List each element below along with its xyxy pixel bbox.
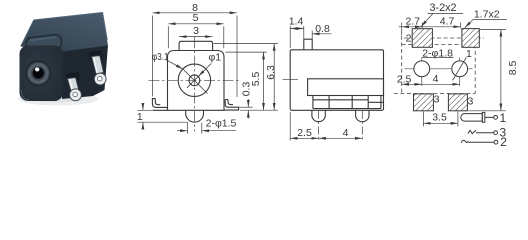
dim 2.5 line (layout) bbox=[402, 83, 422, 85]
extension raised top to 6.3 bbox=[214, 43, 278, 45]
dim 6.3 line bbox=[273, 44, 275, 111]
dim 2-phi1.5 arrows bbox=[177, 130, 187, 132]
dim 8 extension lines bbox=[152, 16, 237, 98]
front face edge light bbox=[21, 90, 29, 100]
pad B (pin 1) bbox=[462, 29, 479, 48]
front view bottom pin bbox=[186, 110, 204, 122]
svg-text:3: 3 bbox=[193, 25, 199, 37]
svg-text:1.7x2: 1.7x2 bbox=[474, 9, 500, 21]
svg-text:8.5: 8.5 bbox=[507, 61, 519, 76]
svg-text:1.4: 1.4 bbox=[289, 16, 304, 28]
front view raised top section bbox=[179, 41, 213, 50]
dim 8.5 line bbox=[500, 29, 502, 110]
side view leg 2 bbox=[356, 110, 369, 121]
dim 8 line bbox=[152, 12, 237, 14]
2-phi1.8 underline bbox=[422, 57, 454, 59]
phi3.1 leader diagonal bbox=[166, 60, 211, 94]
top dim extensions bbox=[402, 23, 461, 36]
dim 2.7 line tail bbox=[399, 26, 402, 28]
svg-text:2: 2 bbox=[500, 135, 507, 148]
horizontal centerline bbox=[149, 79, 241, 81]
extension body top to 5.5 bbox=[226, 51, 267, 53]
extension foot step bbox=[239, 106, 252, 108]
dim 0.3 arrows bbox=[247, 99, 249, 107]
side view centerline bbox=[283, 79, 298, 81]
phi1 leader bbox=[198, 63, 211, 76]
hole circle 2 bbox=[452, 61, 468, 77]
front face bbox=[20, 46, 64, 102]
dim 1.4 line bbox=[290, 28, 304, 30]
svg-text:0.3: 0.3 bbox=[241, 82, 253, 97]
svg-text:4: 4 bbox=[433, 73, 439, 85]
hole circles centerlines bbox=[405, 58, 473, 87]
front view main body bbox=[168, 51, 225, 111]
shadow bbox=[18, 93, 98, 106]
side view bottom strip details bbox=[313, 96, 384, 109]
svg-text:1: 1 bbox=[499, 111, 506, 125]
dim 2.7 line bbox=[402, 26, 423, 28]
leg centerlines bbox=[319, 111, 363, 141]
svg-text:φ3.1: φ3.1 bbox=[152, 51, 169, 63]
side view barrel band bbox=[308, 79, 384, 96]
pad D (pin 3) bbox=[448, 94, 467, 111]
barrel recess bbox=[25, 60, 52, 87]
svg-text:1: 1 bbox=[137, 111, 143, 123]
svg-text:3-2x2: 3-2x2 bbox=[429, 2, 456, 14]
dim 3.5 extensions bbox=[423, 112, 458, 127]
dim 5.5 line bbox=[263, 52, 265, 110]
1.7x2 underline and leader bbox=[473, 19, 507, 21]
dim 5 extension lines bbox=[168, 26, 224, 48]
hole circle 1 bbox=[414, 61, 430, 77]
dim 1.4 extensions bbox=[290, 26, 312, 48]
dashed pad row centerline bbox=[404, 37, 484, 39]
pad A (pin 2) bbox=[412, 29, 432, 48]
svg-text:0.8: 0.8 bbox=[315, 23, 330, 35]
phi1 diagonal crosshair bbox=[187, 73, 202, 88]
pin lug left bbox=[67, 78, 81, 101]
front view right foot bbox=[224, 100, 239, 111]
jack body top face bbox=[21, 13, 109, 52]
svg-text:3: 3 bbox=[434, 94, 440, 106]
jack body lower-right side face bbox=[60, 45, 108, 99]
3-2x2 underline and leader bbox=[428, 12, 464, 14]
dim 3 line bbox=[179, 36, 212, 38]
legend pin 2 symbol bbox=[461, 140, 498, 144]
svg-text:2-φ1.8: 2-φ1.8 bbox=[422, 48, 453, 60]
dim 5 line bbox=[168, 23, 224, 25]
dashed outline bottom bbox=[394, 93, 475, 95]
svg-text:4.7: 4.7 bbox=[440, 16, 455, 28]
side view top tab bbox=[304, 39, 312, 50]
legend pin 1 plug symbol bbox=[461, 112, 498, 122]
barrel hole bbox=[33, 67, 44, 78]
pad C (pin 3) bbox=[414, 94, 434, 111]
raised bump on top bbox=[26, 34, 62, 52]
dashed outline top bbox=[402, 43, 476, 45]
svg-text:2.5: 2.5 bbox=[397, 73, 412, 85]
svg-text:4: 4 bbox=[343, 127, 349, 139]
small circle phi1 bbox=[189, 75, 200, 86]
big circle phi3.1 bbox=[178, 64, 210, 96]
dim 2-phi1.5 extensions bbox=[187, 123, 201, 134]
svg-text:φ1: φ1 bbox=[208, 51, 221, 63]
top back edge highlight bbox=[34, 13, 108, 41]
dim 1 extensions bbox=[138, 110, 189, 122]
side view body bbox=[290, 50, 383, 111]
dim 2.5/4 extension left bbox=[289, 112, 291, 141]
dim 4 line bbox=[319, 137, 363, 139]
dim 4.7 line bbox=[422, 26, 460, 28]
dim 8.5 extensions bbox=[469, 29, 507, 110]
vertical centerline bbox=[193, 37, 195, 132]
svg-text:6.3: 6.3 bbox=[265, 65, 277, 80]
dim 2.5 line bbox=[290, 137, 318, 139]
svg-text:2-φ1.5: 2-φ1.5 bbox=[206, 118, 237, 130]
dim 0.8 leader bbox=[312, 33, 331, 35]
extension body bottom right bbox=[240, 109, 278, 111]
side view leg 1 bbox=[312, 110, 325, 121]
dashed outline right bbox=[474, 44, 476, 93]
pin stubs dark bbox=[66, 51, 102, 83]
svg-text:2.5: 2.5 bbox=[297, 127, 312, 139]
dim 3.5 line bbox=[423, 122, 458, 124]
svg-text:3.5: 3.5 bbox=[432, 111, 447, 123]
dim 1 line bbox=[142, 103, 144, 110]
svg-text:5: 5 bbox=[193, 12, 199, 24]
leader slash through circle 2 bbox=[453, 57, 467, 80]
dashed outline left bbox=[401, 36, 403, 94]
front view left foot bbox=[152, 99, 167, 111]
dim 4 line (layout) bbox=[422, 83, 460, 85]
specular highlight bbox=[35, 67, 40, 71]
svg-text:2.7: 2.7 bbox=[405, 16, 420, 28]
svg-text:1: 1 bbox=[466, 48, 472, 60]
legend pin 3 symbol bbox=[468, 130, 498, 135]
svg-text:3: 3 bbox=[467, 96, 473, 108]
pin lug right bbox=[92, 56, 107, 85]
top left edge highlight bbox=[21, 20, 34, 46]
svg-text:2: 2 bbox=[406, 33, 412, 45]
